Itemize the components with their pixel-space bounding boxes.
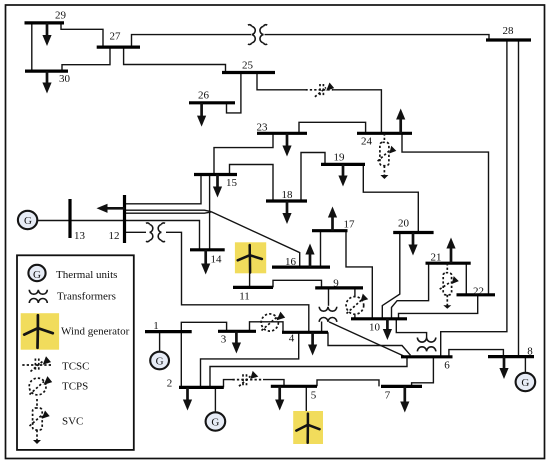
svg-text:3: 3 [221, 334, 227, 346]
svg-text:29: 29 [55, 10, 67, 22]
svg-text:12: 12 [109, 230, 120, 242]
svg-text:18: 18 [282, 189, 294, 201]
svg-text:25: 25 [242, 60, 254, 72]
svg-text:TCPS: TCPS [62, 381, 88, 393]
svg-text:7: 7 [385, 390, 391, 402]
svg-text:9: 9 [333, 278, 339, 290]
svg-text:27: 27 [110, 30, 122, 42]
svg-text:19: 19 [334, 152, 346, 164]
svg-text:G: G [33, 269, 41, 281]
svg-text:G: G [24, 215, 32, 227]
svg-text:14: 14 [211, 254, 223, 266]
svg-text:G: G [156, 356, 164, 368]
svg-text:21: 21 [431, 252, 442, 264]
svg-text:10: 10 [369, 322, 381, 334]
svg-text:30: 30 [59, 73, 71, 85]
svg-text:17: 17 [344, 219, 356, 231]
svg-text:28: 28 [503, 25, 515, 37]
svg-text:G: G [211, 417, 219, 429]
svg-text:4: 4 [289, 333, 295, 345]
svg-text:SVC: SVC [62, 416, 83, 428]
svg-text:22: 22 [473, 286, 484, 298]
svg-text:TCSC: TCSC [62, 361, 90, 373]
svg-text:24: 24 [361, 136, 373, 148]
svg-text:13: 13 [74, 230, 86, 242]
svg-text:6: 6 [444, 360, 450, 372]
svg-text:26: 26 [198, 90, 210, 102]
svg-text:Thermal units: Thermal units [56, 269, 117, 281]
svg-text:15: 15 [226, 177, 238, 189]
svg-text:2: 2 [167, 377, 173, 389]
svg-text:Wind generator: Wind generator [61, 326, 130, 338]
svg-text:G: G [521, 377, 529, 389]
svg-text:23: 23 [257, 122, 269, 134]
svg-text:11: 11 [239, 291, 250, 303]
svg-text:1: 1 [153, 320, 159, 332]
svg-text:20: 20 [398, 218, 410, 230]
svg-text:Transformers: Transformers [57, 291, 116, 303]
svg-text:5: 5 [311, 390, 317, 402]
svg-text:16: 16 [285, 256, 297, 268]
svg-text:8: 8 [527, 345, 533, 357]
